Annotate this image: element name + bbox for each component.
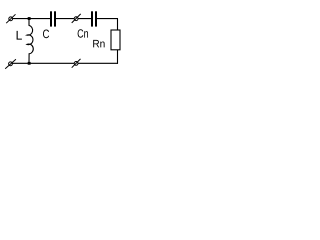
break mark top (circle with slash on wire) — [72, 14, 81, 23]
wire top horizontal segment 3 — [97, 18, 118, 20]
wire bottom horizontal — [12, 62, 118, 64]
wire top horizontal segment 2 — [56, 18, 91, 20]
wire right vertical drop to resistor — [117, 19, 119, 30]
break mark bottom (circle with slash on wire) — [72, 59, 81, 68]
terminal top-left (circle with slash) — [6, 14, 15, 23]
wire top horizontal segment 1 — [12, 18, 50, 20]
label L — [17, 31, 22, 40]
wire resistor bottom stub — [117, 50, 119, 64]
capacitor Cn right plate — [95, 11, 97, 26]
terminal bottom-left (circle with slash) — [5, 59, 16, 68]
node junction dot top — [28, 17, 31, 20]
label C — [43, 30, 49, 39]
capacitor C left plate — [50, 11, 52, 26]
label Cn — [78, 29, 88, 37]
capacitor C right plate — [54, 11, 56, 26]
capacitor Cn left plate — [91, 11, 93, 26]
inductor L — [27, 19, 33, 63]
label Rn — [93, 40, 104, 47]
resistor Rn body — [111, 30, 120, 50]
node junction dot bottom — [28, 62, 31, 65]
